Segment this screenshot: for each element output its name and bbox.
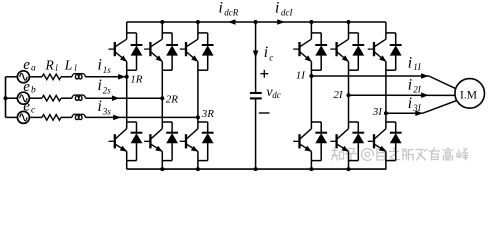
svg-text:i: i — [275, 0, 279, 16]
svg-text:2R: 2R — [166, 94, 179, 106]
svg-text:i: i — [264, 44, 268, 61]
svg-text:1I: 1I — [413, 62, 422, 72]
svg-text:i: i — [219, 0, 223, 16]
svg-text:e: e — [23, 57, 30, 73]
svg-text:I.M: I.M — [460, 90, 477, 102]
svg-text:a: a — [31, 64, 36, 74]
svg-text:3s: 3s — [102, 106, 112, 116]
svg-text:2s: 2s — [103, 85, 112, 95]
svg-text:1I: 1I — [296, 69, 307, 81]
svg-text:i: i — [98, 57, 102, 74]
svg-text:b: b — [31, 86, 36, 96]
svg-text:dc: dc — [272, 90, 281, 100]
svg-text:3R: 3R — [201, 108, 215, 120]
svg-text:3I: 3I — [372, 106, 384, 118]
svg-text:i: i — [408, 54, 412, 71]
svg-text:dcR: dcR — [224, 7, 238, 17]
svg-text:L: L — [64, 57, 73, 72]
svg-text:dcI: dcI — [281, 7, 293, 17]
svg-text:i: i — [98, 98, 102, 115]
svg-text:2I: 2I — [333, 89, 344, 101]
svg-text:i: i — [98, 77, 102, 94]
svg-text:R: R — [45, 57, 55, 72]
svg-text:1s: 1s — [103, 65, 112, 75]
svg-text:e: e — [23, 99, 30, 115]
svg-text:e: e — [23, 79, 30, 95]
svg-text:3I: 3I — [412, 103, 422, 113]
svg-text:i: i — [408, 77, 412, 94]
svg-text:2I: 2I — [413, 85, 422, 95]
svg-text:i: i — [408, 95, 412, 112]
svg-text:c: c — [269, 52, 273, 62]
svg-text:1R: 1R — [130, 73, 143, 85]
